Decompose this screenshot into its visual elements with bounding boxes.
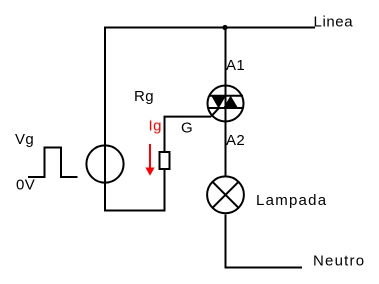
lamp X stroke 1 — [213, 182, 239, 208]
triac top bar — [209, 95, 244, 97]
triac U1 circle — [208, 86, 244, 122]
svg-text:A1: A1 — [226, 57, 245, 74]
wire resistor branch upper — [164, 117, 166, 152]
svg-text:Rg: Rg — [134, 88, 154, 105]
wire triac vertical — [225, 28, 227, 176]
source Vg circle — [86, 145, 123, 182]
triac left triangle — [211, 96, 225, 109]
triac right triangle — [223, 96, 238, 108]
svg-text:Ig: Ig — [149, 118, 162, 135]
wire bottom-left horizontal — [104, 210, 165, 212]
svg-text:0V: 0V — [16, 177, 35, 194]
svg-text:Neutro: Neutro — [313, 253, 365, 270]
wire resistor branch lower — [164, 169, 166, 212]
triac bottom bar — [209, 107, 244, 109]
svg-text:Lampada: Lampada — [256, 192, 327, 209]
wire left vertical — [104, 27, 106, 211]
node junction dot — [222, 25, 227, 30]
wire gate horizontal — [164, 116, 212, 118]
svg-text:A2: A2 — [226, 132, 245, 149]
resistor Rg — [160, 152, 170, 169]
current Ig arrow — [149, 144, 151, 168]
wire lamp to neutro — [226, 215, 303, 268]
lamp circle — [207, 176, 244, 213]
wire gate diagonal — [211, 108, 219, 117]
wire top horizontal (Linea) — [105, 27, 315, 29]
lamp X stroke 2 — [213, 182, 239, 208]
pulse waveform — [28, 148, 78, 178]
svg-text:G: G — [181, 119, 193, 136]
svg-text:Linea: Linea — [314, 14, 354, 31]
svg-text:Vg: Vg — [15, 131, 34, 148]
